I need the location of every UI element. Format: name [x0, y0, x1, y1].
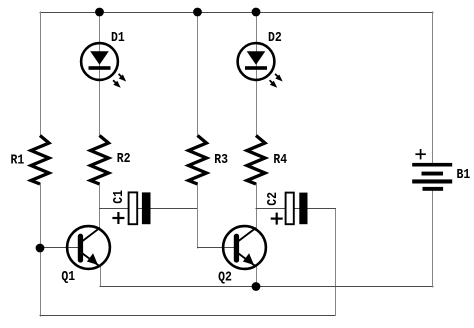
wire Q1 emitter lead: [100, 265, 102, 287]
wire R4 to Q2 collector: [256, 184, 258, 229]
junction Q2 emitter / rail: [252, 282, 261, 291]
wire emitter rail: [100, 286, 433, 288]
wire Q1 base: [40, 247, 80, 249]
wire battery positive lead: [432, 12, 434, 163]
wire R3 to Q2 base corner: [197, 184, 199, 249]
capacitor C2: [286, 193, 308, 225]
junction top rail / D2 branch: [252, 8, 261, 17]
wire bottom feedback: [40, 315, 336, 317]
svg-text:C2: C2: [265, 192, 280, 206]
wire R2 to Q1 collector: [99, 184, 101, 229]
wire Q2 emitter lead: [256, 265, 258, 287]
junction top rail / R3 branch: [193, 8, 202, 17]
svg-text:Q2: Q2: [218, 270, 232, 285]
wire Q2 base: [198, 247, 237, 249]
transistor Q1: [67, 226, 110, 269]
svg-text:D1: D1: [111, 30, 125, 45]
wire C2 riser: [335, 209, 337, 316]
battery B1: [412, 163, 452, 191]
junction Q1 base / left rail: [36, 244, 45, 253]
label B1 plus: [415, 149, 425, 159]
resistor R1: [31, 136, 49, 185]
svg-text:Q1: Q1: [61, 269, 75, 284]
svg-text:R3: R3: [214, 152, 228, 167]
wire R3 branch upper: [197, 12, 199, 136]
wire C1 link: [100, 208, 198, 210]
svg-text:R1: R1: [11, 153, 25, 168]
wire D1/R2 branch upper: [99, 12, 101, 136]
LED D1: [81, 43, 126, 88]
capacitor C1: [129, 192, 151, 224]
wire D2/R4 branch upper: [256, 12, 258, 136]
junction top rail / D1 branch: [95, 8, 104, 17]
wire left rail upper (R1 branch): [40, 12, 42, 136]
resistor R2: [91, 136, 109, 185]
resistor R4: [247, 136, 265, 185]
wire battery negative lead: [432, 191, 434, 287]
svg-text:D2: D2: [268, 30, 282, 45]
label C2 plus: [271, 213, 283, 225]
transistor Q2: [223, 226, 266, 269]
wire left rail lower: [40, 184, 42, 317]
resistor R3: [189, 136, 207, 185]
svg-text:R4: R4: [273, 152, 287, 167]
wire C2 link: [256, 208, 336, 210]
wire top rail: [40, 12, 433, 14]
svg-text:B1: B1: [457, 167, 471, 182]
svg-text:C1: C1: [111, 190, 126, 204]
svg-text:R2: R2: [117, 151, 131, 166]
LED D2: [238, 43, 283, 88]
label C1 plus: [112, 212, 124, 224]
